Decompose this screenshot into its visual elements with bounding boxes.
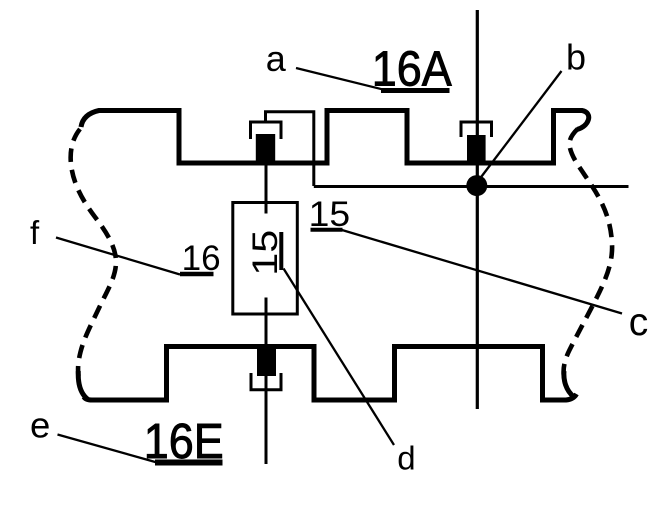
joint line (thin horizontal, slightly tilted) xyxy=(314,185,629,188)
leader e xyxy=(58,435,158,463)
key a (black, upper-left notch) xyxy=(256,134,275,162)
right break line bottom hook (solid) xyxy=(564,371,574,397)
leader a xyxy=(296,68,383,90)
svg-text:d: d xyxy=(397,440,415,477)
upper rail profile 16A (thick castellated outline) xyxy=(81,111,589,164)
svg-text:15: 15 xyxy=(246,230,285,276)
right break line (dashed S-curve) xyxy=(564,129,612,375)
overlap outline of mating segment (thin rectangle, top) xyxy=(266,112,314,186)
underline 16E xyxy=(155,460,223,466)
left break line (dashed S-curve) xyxy=(71,129,116,376)
svg-text:c: c xyxy=(629,301,649,344)
svg-text:a: a xyxy=(266,38,287,79)
lower rail profile 16E (thick castellated outline) xyxy=(84,347,577,401)
left break line bottom hook (solid) xyxy=(78,371,88,400)
key pocket bracket (lower) xyxy=(251,373,281,390)
leader d (from rotated 15 underline to label d) xyxy=(284,269,395,446)
leader b xyxy=(482,71,562,177)
key e (black, lower tooth) xyxy=(257,347,276,376)
leader c (from 15 underline to label c) xyxy=(342,230,622,314)
centre line through key a / box 15 (vertical, upper segment) xyxy=(265,162,268,214)
detail box 15 xyxy=(233,203,297,315)
svg-text:e: e xyxy=(30,404,50,445)
svg-text:b: b xyxy=(566,37,586,78)
underline 15 xyxy=(311,228,343,232)
centre line through key b (vertical) xyxy=(476,10,479,409)
junction dot b (filled circle) xyxy=(466,175,487,196)
key b (black, upper-right notch) xyxy=(467,135,486,163)
underline of rotated 15 xyxy=(279,232,283,270)
underline 16 xyxy=(180,272,214,277)
leader f xyxy=(56,238,180,275)
svg-text:f: f xyxy=(30,214,40,251)
key pocket bracket (upper-right) xyxy=(461,122,492,137)
centre line through key a / box 15 (vertical, lower segment) xyxy=(265,298,268,465)
underline 16A xyxy=(381,88,450,93)
key pocket bracket (upper-left) xyxy=(251,122,282,139)
